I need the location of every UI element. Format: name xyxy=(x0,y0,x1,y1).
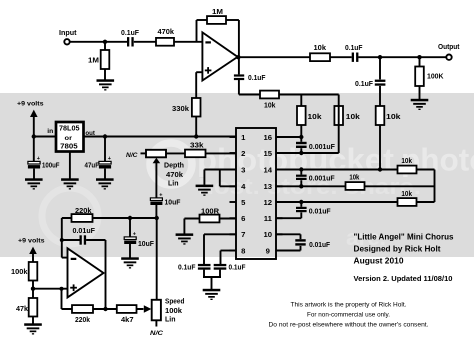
node R4/Vref rail junction xyxy=(194,134,198,138)
wire pin 9 row xyxy=(276,250,301,252)
resistor R9 10k to pin15 xyxy=(334,106,343,125)
wire +9V to regulator in xyxy=(34,136,56,138)
node minus vertical / C17 junction xyxy=(60,238,64,242)
svg-text:10uF: 10uF xyxy=(138,241,155,248)
svg-text:100k: 100k xyxy=(11,269,28,276)
wire C17 to output vertical xyxy=(86,239,105,241)
wire R10 down to pin14 row xyxy=(379,125,381,170)
svg-text:10k: 10k xyxy=(264,103,276,110)
svg-text:10uF: 10uF xyxy=(165,199,182,206)
wire pin 12 row xyxy=(276,201,435,203)
svg-text:470k: 470k xyxy=(158,29,175,36)
node +9V / C8 junction xyxy=(32,134,36,138)
svg-text:12: 12 xyxy=(264,198,273,207)
node pin15/C13 junction xyxy=(299,151,303,155)
svg-text:330k: 330k xyxy=(172,106,189,113)
input jack J1 xyxy=(64,39,69,44)
wiper arrow into speed pot xyxy=(144,305,152,313)
node pin12/C15 junction xyxy=(299,200,303,204)
pin 8 stub and number xyxy=(230,246,247,255)
+9V supply arrow bottom xyxy=(29,247,37,262)
svg-text:100k: 100k xyxy=(165,308,182,315)
svg-text:For non-commercial use only.: For non-commercial use only. xyxy=(307,311,390,318)
svg-text:August 2010: August 2010 xyxy=(354,256,404,266)
op-amp U1B minus sign xyxy=(71,258,77,260)
wire pin 16 row to C13 xyxy=(276,136,301,138)
ground C8 xyxy=(25,178,43,189)
resistor R8 10k to pin16 xyxy=(297,106,306,125)
pin 4 stub and number xyxy=(230,182,247,191)
svg-text:6: 6 xyxy=(241,214,245,223)
svg-text:9: 9 xyxy=(266,246,270,255)
ground 100R xyxy=(176,233,194,244)
pin 3 stub and number xyxy=(230,165,246,174)
wire C8 top lead xyxy=(33,137,35,162)
svg-text:11: 11 xyxy=(264,214,273,223)
pin 14 stub and number xyxy=(264,165,283,174)
svg-text:in: in xyxy=(47,128,53,135)
wire C9 top lead xyxy=(104,137,106,162)
pin 15 stub and number xyxy=(264,149,283,158)
resistor R2 470k xyxy=(156,38,174,46)
capacitor C14 0.001uF pin14-pin13 xyxy=(296,170,307,187)
pin 16 stub and number xyxy=(264,133,283,142)
svg-text:7: 7 xyxy=(241,230,245,239)
node divider junction xyxy=(31,287,35,291)
op-amp U1B LFO xyxy=(68,248,104,297)
ground R17 xyxy=(24,323,42,334)
capacitor C18 10uF LFO xyxy=(124,218,136,244)
svg-text:78L05: 78L05 xyxy=(59,123,80,132)
svg-text:10k: 10k xyxy=(401,158,412,165)
resistor R19 220k LFO bottom xyxy=(72,305,93,313)
svg-text:Speed: Speed xyxy=(165,299,185,306)
pin 10 stub and number xyxy=(264,230,283,239)
capacitor C17 0.01uF LFO xyxy=(80,235,87,244)
resistor R5 10k output xyxy=(310,53,330,61)
wire pin 8 to bypass cap B xyxy=(221,250,237,252)
pin 2 stub and number xyxy=(230,149,246,158)
+9V supply arrow top xyxy=(30,110,38,137)
wire hysteresis drop from plus input xyxy=(61,289,63,309)
svg-text:0.001uF: 0.001uF xyxy=(309,175,336,182)
ground C9 xyxy=(96,178,114,189)
capacitor C5 0.1uF output coupling xyxy=(352,53,359,62)
svg-text:100uF: 100uF xyxy=(42,162,60,169)
svg-text:10k: 10k xyxy=(314,45,327,52)
wire pin 11 row xyxy=(276,217,301,219)
svg-text:470k: 470k xyxy=(166,172,183,179)
capacitor C10 10uF on depth wiper line xyxy=(150,198,162,205)
op-amp U1A minus sign xyxy=(205,41,211,43)
wire R1 top lead xyxy=(104,42,106,50)
wire op-amp1 output to R5 xyxy=(238,56,310,58)
regulator U2 78L05 box xyxy=(56,122,84,152)
resistor R16 100k divider top xyxy=(29,262,38,281)
wire C1 to R2 xyxy=(134,41,156,43)
wire non-inverting input down to R4 xyxy=(195,72,197,98)
resistor R7 10k xyxy=(260,91,279,99)
wire C5 to output jack xyxy=(358,56,446,58)
ground pin3/pin4 xyxy=(196,185,214,196)
wire R6 top lead xyxy=(419,57,421,66)
svg-text:10k: 10k xyxy=(386,114,401,121)
svg-text:15: 15 xyxy=(264,149,273,158)
wire regulator out to Vref rail and pin 1 xyxy=(84,136,237,138)
wire C18 to ground xyxy=(129,244,131,258)
pin 7 stub and number xyxy=(230,230,246,239)
wire regulator ground pin xyxy=(69,152,71,179)
svg-text:1: 1 xyxy=(241,133,246,142)
svg-text:10k: 10k xyxy=(308,114,322,121)
wire R4 to Vref rail xyxy=(195,117,197,137)
capacitor C11 0.1uF pin7 bypass xyxy=(198,264,211,270)
svg-text:7805: 7805 xyxy=(60,142,77,151)
ground C18 xyxy=(121,257,139,268)
node input/R1 junction xyxy=(103,40,107,44)
wire R16 to R17 xyxy=(32,281,34,299)
svg-text:+: + xyxy=(133,232,136,238)
pin 9 stub and number xyxy=(266,246,283,255)
wire op-amp1 output down to C7 xyxy=(238,57,240,74)
svg-text:2: 2 xyxy=(241,149,245,158)
wire R2 to op-amp inverting input xyxy=(174,41,202,43)
svg-text:+: + xyxy=(37,156,40,162)
pin 1 stub and number xyxy=(230,133,247,142)
node LFO top / depth line junction xyxy=(155,216,159,220)
svg-text:8: 8 xyxy=(241,246,246,255)
svg-text:Output: Output xyxy=(438,44,460,51)
wire C8 bottom lead xyxy=(33,169,35,179)
svg-text:Do not re-post elsewhere witho: Do not re-post elsewhere without the own… xyxy=(269,322,429,329)
svg-text:0.01uF: 0.01uF xyxy=(73,228,96,235)
svg-text:47uF: 47uF xyxy=(85,162,100,169)
svg-text:4: 4 xyxy=(241,182,246,191)
wire depth pot N/C stub xyxy=(141,152,147,154)
svg-text:Input: Input xyxy=(59,30,77,37)
svg-text:10: 10 xyxy=(264,230,273,239)
capacitor C8 100uF xyxy=(28,161,40,168)
wire divider to op-amp2 plus input xyxy=(33,288,68,290)
resistor R17 47k divider bottom xyxy=(29,298,38,317)
wire input to C1 xyxy=(70,41,127,43)
resistor R20 4k7 xyxy=(117,305,137,313)
svg-text:+: + xyxy=(159,193,162,199)
wire vertical 10k R8 top xyxy=(300,95,302,138)
svg-text:+9 volts: +9 volts xyxy=(17,101,44,108)
resistor R10 10k xyxy=(376,106,385,125)
node plus row / hysteresis junction xyxy=(60,287,64,291)
svg-text:photobucket: photobucket xyxy=(197,142,395,178)
wire C7 down and right to R7 xyxy=(238,80,240,95)
wire R9 to pin15 row xyxy=(338,95,340,154)
wire op-amp2 minus stub and vertical xyxy=(62,218,68,258)
svg-text:Version 2. Updated 11/08/10: Version 2. Updated 11/08/10 xyxy=(354,276,453,283)
ground input R1 xyxy=(97,79,115,90)
wire C9 bottom lead xyxy=(104,169,106,179)
potentiometer VR1 Depth 470k body xyxy=(146,150,166,158)
svg-text:100R: 100R xyxy=(201,209,219,216)
VR1 wiper arrow xyxy=(153,158,161,198)
svg-text:4k7: 4k7 xyxy=(121,317,134,324)
node pin14/C14 junction xyxy=(299,167,303,171)
wire pin 3 to ground drop xyxy=(204,169,236,171)
ground C11 C12 xyxy=(203,289,221,300)
resistor R18 220k LFO top xyxy=(72,214,93,222)
svg-text:3: 3 xyxy=(241,165,245,174)
photobucket watermark logo and text xyxy=(42,142,474,251)
node LFO top / 10uF junction xyxy=(128,216,132,220)
svg-text:N/C: N/C xyxy=(150,330,163,337)
svg-text:This artwork is the property o: This artwork is the property of Rick Hol… xyxy=(291,301,407,308)
op-amp U1B plus sign xyxy=(70,284,77,291)
wire feedback top left segment xyxy=(197,19,208,21)
wire R5 to C5 xyxy=(330,56,352,58)
svg-text:+9 volts: +9 volts xyxy=(18,238,45,245)
resistor R15 10k pin12 row xyxy=(398,198,417,206)
svg-text:220k: 220k xyxy=(75,317,90,324)
wire pin 10 row xyxy=(276,233,301,235)
wire pin 14 row xyxy=(276,169,435,171)
wire pin 13 row xyxy=(276,185,435,187)
potentiometer VR2 Speed 100k body xyxy=(152,300,161,321)
pin 5 stub and number xyxy=(230,198,247,207)
pin 13 stub and number xyxy=(264,182,283,191)
wire R17 to ground xyxy=(32,317,34,324)
svg-text:0.1uF: 0.1uF xyxy=(229,265,247,272)
output jack J2 xyxy=(446,55,451,60)
svg-text:+: + xyxy=(108,156,111,162)
wire pot to R11 to pin 2 xyxy=(166,152,236,154)
svg-text:10k: 10k xyxy=(349,174,359,181)
wire pin 15 row xyxy=(276,152,339,154)
capacitor C6 0.1uF feedback tap xyxy=(375,80,386,86)
svg-text:0.1uF: 0.1uF xyxy=(345,45,363,52)
capacitor C7 0.1uF xyxy=(234,74,244,80)
capacitor C15 0.01uF pin12-pin11 xyxy=(296,202,307,218)
pin 11 stub and number xyxy=(264,214,283,223)
ground output R6 xyxy=(411,99,429,110)
node op-amp1 output xyxy=(236,55,240,59)
wire op-amp2 output vertical xyxy=(105,240,107,309)
svg-text:Depth: Depth xyxy=(164,163,184,170)
wire LFO feedback top row xyxy=(62,217,157,219)
resistor R1 1M to ground xyxy=(101,50,110,69)
svg-text:0.1uF: 0.1uF xyxy=(178,265,196,272)
svg-text:1M: 1M xyxy=(88,58,99,65)
svg-text:Lin: Lin xyxy=(168,180,179,187)
svg-text:10k: 10k xyxy=(401,191,412,198)
wires joining C11 C12 to common ground xyxy=(203,270,221,289)
photobucket watermark gray band xyxy=(0,93,474,257)
node pin16/R8/C13 junction xyxy=(299,135,303,139)
wire non-inverting input stub xyxy=(196,71,202,73)
node pin14/R10 junction xyxy=(378,167,382,171)
svg-text:5: 5 xyxy=(241,198,246,207)
IC U3 BBD/chorus chip 16-pin xyxy=(236,128,276,259)
capacitor C9 47uF xyxy=(99,161,111,168)
svg-text:0.001uF: 0.001uF xyxy=(309,144,336,151)
svg-text:100K: 100K xyxy=(427,74,444,81)
resistor R6 100K pulldown xyxy=(415,67,424,87)
pin 12 stub and number xyxy=(264,198,283,207)
wire C10 down to LFO junction xyxy=(155,205,157,218)
svg-text:47k: 47k xyxy=(16,306,28,313)
wire depth line down to speed pot top xyxy=(156,218,158,300)
svg-text:Lin: Lin xyxy=(165,317,176,324)
svg-text:220k: 220k xyxy=(75,208,92,215)
resistor R11 33k xyxy=(185,150,206,158)
svg-text:0.01uF: 0.01uF xyxy=(309,208,332,215)
wire speed pot bottom N/C stub xyxy=(155,320,157,326)
svg-text:"Little Angel" Mini Chorus: "Little Angel" Mini Chorus xyxy=(354,232,454,242)
ground regulator xyxy=(61,178,79,189)
wire 100R left down to ground xyxy=(183,219,185,234)
svg-text:1M: 1M xyxy=(212,9,223,16)
resistor R13 10k pin13 row xyxy=(346,182,365,190)
wire R1 bottom lead xyxy=(104,69,106,80)
node out / C9 junction xyxy=(103,134,107,138)
capacitor C16 0.01uF pin10-pin9 xyxy=(295,234,305,250)
wire pin 7 to bypass cap A xyxy=(204,233,236,235)
svg-text:10k: 10k xyxy=(346,114,360,121)
svg-text:0.01uF: 0.01uF xyxy=(309,242,331,249)
svg-text:14: 14 xyxy=(264,165,273,174)
pin 6 stub and number xyxy=(230,214,246,223)
wire C6 to R10 xyxy=(379,86,381,106)
capacitor C13 0.001uF pin16-pin15 xyxy=(296,137,307,153)
capacitor C1 0.1uF input coupling xyxy=(127,37,134,46)
wire feedback down to output xyxy=(238,20,240,57)
wire pin 4 to pin 3 tie xyxy=(220,185,236,187)
capacitor C12 0.1uF pin8 bypass xyxy=(214,264,227,270)
svg-text:N/C: N/C xyxy=(126,152,138,159)
node output line / C6 junction xyxy=(378,55,382,59)
wire C17 row left xyxy=(62,239,80,241)
resistor R4 330k bias xyxy=(192,98,201,117)
resistor R14 10k pin14 row xyxy=(398,166,417,174)
node pin13/C14 junction xyxy=(299,184,303,188)
svg-text:0.1uF: 0.1uF xyxy=(121,30,140,37)
wire C6 top from output line xyxy=(379,57,381,79)
wire feedback vertical to inverting input xyxy=(196,20,198,42)
svg-text:33k: 33k xyxy=(190,143,204,150)
node output vertical / bottom row junction xyxy=(103,307,107,311)
svg-text:0.1uF: 0.1uF xyxy=(355,81,374,88)
wire right-side vertical pin14-pin12 tie xyxy=(434,170,436,203)
op-amp U1A first stage xyxy=(202,32,237,80)
svg-text:0.1uF: 0.1uF xyxy=(248,75,266,82)
wire 100R to pin 6 xyxy=(184,218,236,220)
resistor R3 1M feedback xyxy=(207,16,226,24)
wire LFO bottom row xyxy=(62,308,144,310)
wire feedback top right segment xyxy=(226,19,239,21)
wire R6 bottom lead xyxy=(419,86,421,99)
svg-text:Designed by Rick Holt: Designed by Rick Holt xyxy=(354,244,441,254)
node output line / R6 junction xyxy=(417,55,421,59)
svg-text:13: 13 xyxy=(264,182,273,191)
op-amp U1A plus sign xyxy=(205,67,212,74)
svg-text:16: 16 xyxy=(264,133,273,142)
